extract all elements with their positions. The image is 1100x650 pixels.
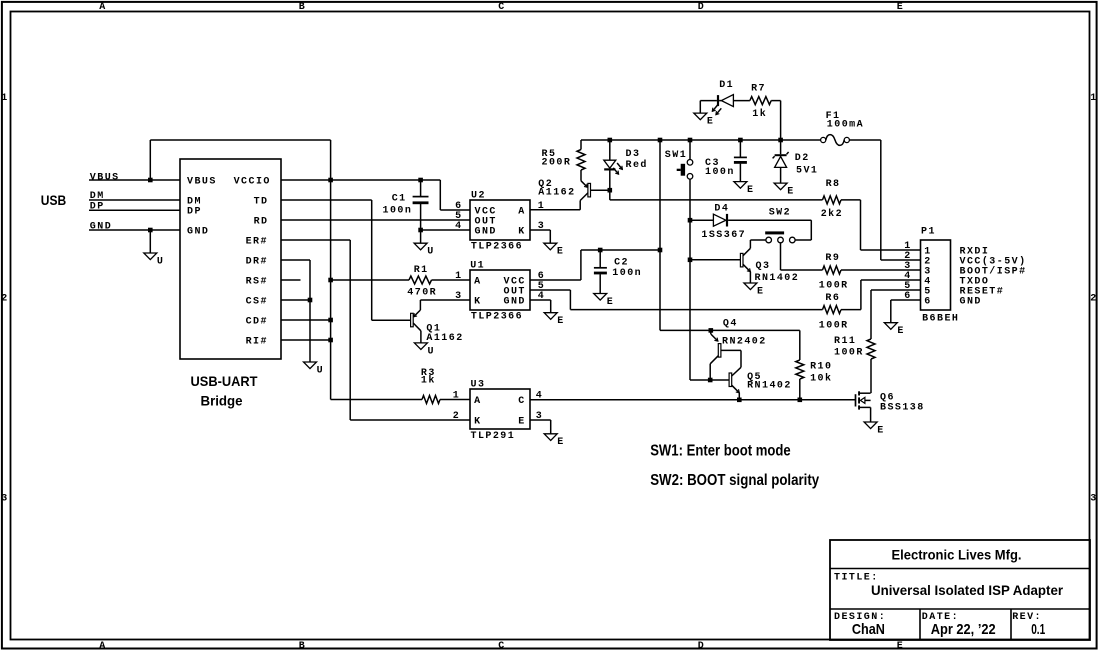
wire R6 to P1 pin4 — [841, 280, 921, 310]
wire U3 pin4 to Q6 gate — [530, 391, 856, 403]
optocoupler U1 TLP2366 — [470, 261, 530, 323]
wire VCC-E vertical bus x660 — [659, 140, 661, 330]
note SW2 — [650, 472, 819, 489]
svg-text:K: K — [518, 226, 525, 237]
svg-text:RN1402: RN1402 — [755, 273, 800, 284]
wire CS# — [281, 299, 310, 301]
wire RI# — [281, 339, 331, 341]
wire R9 to P1 pin3 — [841, 269, 921, 271]
wire GND-U / U2 pin4 — [418, 221, 470, 232]
wire DM — [89, 191, 180, 202]
svg-text:2: 2 — [1090, 294, 1097, 305]
ground U (Q1) — [414, 343, 435, 357]
svg-text:TLP291: TLP291 — [471, 431, 516, 442]
switch SW1 — [665, 150, 693, 179]
wire VCCIO to C1/U2 — [281, 178, 470, 212]
resistor R11 100R — [834, 336, 875, 393]
wire VCC-U vertical bus — [328, 140, 333, 400]
wire TXD-E / Q2 base line — [610, 199, 823, 201]
svg-text:Apr 22, ’22: Apr 22, ’22 — [931, 621, 996, 638]
svg-text:100R: 100R — [819, 320, 849, 331]
svg-text:3: 3 — [536, 411, 543, 422]
svg-text:U1: U1 — [470, 261, 485, 272]
USB-UART bridge IC — [180, 159, 281, 408]
svg-text:E: E — [607, 297, 614, 308]
ground E (C3) — [734, 182, 755, 196]
fuse F1 100mA — [821, 111, 864, 146]
wire D4 to SW2 — [795, 220, 811, 240]
svg-text:RN1402: RN1402 — [747, 381, 792, 392]
ground E (U2 K) — [544, 243, 565, 257]
ground E (Q3) — [744, 283, 765, 297]
svg-text:GND: GND — [90, 222, 112, 233]
svg-text:6: 6 — [924, 296, 931, 307]
svg-text:1k: 1k — [421, 375, 436, 387]
svg-text:USB-UART: USB-UART — [191, 373, 258, 389]
svg-text:ChaN: ChaN — [852, 621, 885, 638]
svg-text:D4: D4 — [714, 203, 729, 214]
resistor R3 1k — [421, 368, 440, 403]
svg-text:CS#: CS# — [246, 296, 268, 307]
svg-text:U3: U3 — [471, 380, 486, 391]
wire R3 to U3 pin1 — [440, 391, 470, 402]
ground E (Q6) — [864, 422, 885, 436]
wire P1 pin5 to R11 — [871, 290, 921, 339]
svg-text:E: E — [757, 286, 764, 297]
svg-text:1: 1 — [538, 201, 545, 212]
wire CD# — [281, 319, 331, 321]
ground E (D1) — [694, 101, 715, 128]
svg-text:U2: U2 — [471, 191, 486, 202]
svg-text:2: 2 — [1, 294, 8, 305]
svg-text:TLP2366: TLP2366 — [471, 241, 523, 252]
ground U (C1/U2) — [414, 230, 435, 258]
LED D3 Red — [604, 140, 648, 200]
svg-text:E: E — [747, 185, 754, 196]
svg-text:Red: Red — [626, 159, 648, 171]
wire DR# — [281, 260, 312, 362]
svg-text:R1: R1 — [414, 265, 429, 276]
svg-text:GND: GND — [187, 226, 209, 237]
svg-text:3: 3 — [538, 221, 545, 232]
svg-text:USB: USB — [41, 193, 66, 208]
ground E (D2) — [774, 183, 795, 197]
wire U1 OUT to R6 — [530, 281, 823, 310]
MOSFET Q6 BSS138 — [856, 391, 925, 422]
wire SW2 common to R9 — [781, 243, 823, 270]
svg-text:E: E — [707, 117, 714, 128]
LED D1 — [700, 80, 734, 115]
wire U2 pin1 to Q2 collector — [530, 201, 580, 212]
wire ER# — [281, 240, 470, 422]
diode D4 1SS367 — [690, 203, 811, 241]
svg-text:R9: R9 — [825, 253, 840, 264]
svg-text:GND: GND — [475, 226, 497, 237]
wire TD — [281, 200, 411, 320]
svg-text:1: 1 — [1090, 93, 1097, 104]
svg-text:RD: RD — [254, 216, 269, 227]
wire U2 pin3 — [530, 221, 550, 243]
ground U (DR#/CS#) — [304, 362, 325, 376]
svg-text:DR#: DR# — [246, 256, 268, 267]
svg-text:E: E — [557, 437, 564, 448]
wire U1 pin3 to Q1 — [420, 291, 470, 310]
svg-text:R11: R11 — [834, 336, 856, 347]
ground E (P1 GND) — [884, 323, 905, 337]
svg-text:CD#: CD# — [246, 316, 268, 327]
svg-text:D3: D3 — [626, 149, 641, 160]
wire P1 pin6 — [891, 300, 921, 323]
svg-text:B6BEH: B6BEH — [922, 314, 959, 325]
svg-text:A1162: A1162 — [538, 188, 575, 199]
capacitor C1 — [383, 180, 429, 230]
wire VCC-E top rail — [581, 138, 821, 143]
wire SW2 left to Q3 collector — [750, 240, 766, 248]
svg-text:1SS367: 1SS367 — [701, 230, 746, 241]
svg-text:3: 3 — [1, 494, 8, 505]
svg-text:SW1: Enter boot mode: SW1: Enter boot mode — [650, 443, 791, 460]
svg-text:470R: 470R — [407, 287, 437, 298]
wire RS# stub — [281, 279, 301, 281]
svg-text:RN2402: RN2402 — [722, 337, 767, 348]
svg-text:U: U — [157, 256, 164, 267]
svg-text:100R: 100R — [819, 280, 849, 291]
svg-text:4: 4 — [538, 291, 545, 302]
svg-text:3: 3 — [1090, 494, 1097, 505]
wire F1 to P1 pin2 — [849, 140, 920, 260]
svg-text:E: E — [897, 641, 904, 650]
USB connector label — [41, 193, 66, 208]
transistor Q1 A1162 — [411, 310, 464, 344]
zener D2 5V1 — [773, 140, 819, 183]
svg-text:1: 1 — [1, 93, 8, 104]
svg-text:RS#: RS# — [246, 276, 268, 287]
ground E (C2) — [594, 294, 615, 308]
svg-text:U: U — [428, 346, 435, 357]
svg-text:B: B — [299, 2, 306, 13]
resistor R8 2k2 — [821, 179, 843, 220]
svg-text:GND: GND — [960, 296, 982, 307]
svg-text:2k2: 2k2 — [821, 208, 843, 220]
svg-text:TD: TD — [254, 196, 269, 207]
svg-text:100R: 100R — [834, 347, 864, 358]
wire U1 VCC to E-supply — [530, 248, 662, 282]
connector P1 B6BEH — [904, 227, 1026, 325]
svg-text:D2: D2 — [795, 153, 810, 164]
wire SW1/D4/Q3 vertical bus x690 — [688, 179, 693, 380]
wire VCC-U to R1 to U1 pin1 — [331, 271, 470, 282]
transistor Q2 A1162 — [538, 179, 610, 210]
svg-text:Electronic Lives Mfg.: Electronic Lives Mfg. — [892, 546, 1022, 562]
svg-text:E: E — [557, 316, 564, 327]
svg-text:A: A — [99, 641, 106, 650]
svg-text:Universal Isolated ISP Adapter: Universal Isolated ISP Adapter — [871, 582, 1064, 598]
note SW1 — [650, 443, 791, 460]
svg-text:GND: GND — [504, 296, 526, 307]
svg-text:C: C — [498, 2, 505, 13]
svg-text:VBUS: VBUS — [187, 176, 217, 187]
svg-text:R7: R7 — [751, 84, 766, 95]
svg-text:E: E — [877, 425, 884, 436]
svg-text:SW2: BOOT signal polarity: SW2: BOOT signal polarity — [650, 472, 819, 489]
wire SW1 top — [689, 140, 691, 160]
wire RD — [281, 211, 470, 222]
svg-text:C1: C1 — [392, 193, 407, 204]
svg-text:2: 2 — [453, 411, 460, 422]
svg-text:R10: R10 — [810, 362, 832, 373]
wire VBUS — [89, 172, 180, 183]
svg-text:B: B — [299, 641, 306, 650]
wire R8 to P1 pin1 — [841, 200, 921, 250]
svg-text:Bridge: Bridge — [201, 392, 243, 408]
svg-text:R8: R8 — [826, 179, 841, 190]
svg-text:0.1: 0.1 — [1031, 621, 1045, 638]
svg-text:BSS138: BSS138 — [880, 403, 925, 414]
svg-text:1: 1 — [455, 271, 462, 282]
svg-text:K: K — [474, 296, 481, 307]
svg-text:SW2: SW2 — [769, 208, 791, 219]
svg-text:A1162: A1162 — [426, 333, 463, 344]
svg-text:E: E — [897, 326, 904, 337]
ground E (U3) — [544, 434, 565, 448]
svg-text:VBUS: VBUS — [90, 172, 120, 183]
svg-text:C: C — [518, 396, 525, 407]
transistor Q4 RN2402 — [710, 319, 767, 381]
wire DP — [89, 201, 180, 212]
resistor R1 470R — [407, 265, 437, 298]
svg-text:C: C — [498, 641, 505, 650]
switch SW2 — [765, 208, 795, 243]
svg-text:Q4: Q4 — [723, 319, 738, 330]
svg-text:4: 4 — [536, 391, 543, 402]
svg-text:4: 4 — [455, 221, 462, 232]
svg-text:D: D — [698, 641, 705, 650]
resistor R5 200R — [542, 140, 586, 181]
wire VCC-E to Q4/R10 — [660, 328, 800, 333]
svg-text:U: U — [317, 365, 324, 376]
svg-text:E: E — [897, 2, 904, 13]
svg-text:200R: 200R — [542, 158, 572, 169]
svg-text:Q3: Q3 — [756, 261, 771, 272]
capacitor C2 100n — [594, 250, 642, 294]
svg-text:10k: 10k — [810, 373, 832, 385]
svg-text:D1: D1 — [719, 80, 734, 91]
svg-text:100n: 100n — [705, 167, 735, 178]
wire U3 pin3 — [530, 411, 551, 434]
svg-text:A: A — [474, 396, 481, 407]
svg-text:100mA: 100mA — [827, 120, 864, 131]
ground E (U1 GND) — [544, 313, 565, 327]
svg-text:SW1: SW1 — [665, 150, 687, 161]
svg-text:E: E — [787, 187, 794, 198]
svg-text:1k: 1k — [752, 108, 767, 120]
transistor Q3 RN1402 — [690, 248, 799, 284]
resistor R9 100R — [819, 253, 849, 291]
wire VCC-U to R3 — [331, 399, 422, 401]
resistor R10 10k — [796, 330, 833, 399]
svg-text:A: A — [99, 2, 106, 13]
svg-text:1: 1 — [453, 391, 460, 402]
svg-text:P1: P1 — [921, 227, 936, 238]
svg-text:R6: R6 — [825, 293, 840, 304]
capacitor C3 100n — [705, 140, 747, 182]
optocoupler U2 TLP2366 — [470, 191, 530, 253]
wire GND — [89, 222, 180, 233]
wire VCCIO loop over bridge — [150, 140, 330, 180]
resistor R7 1k — [733, 84, 780, 140]
svg-text:RI#: RI# — [246, 336, 268, 347]
ground U (USB GND) — [144, 230, 165, 267]
transistor Q5 RN1402 — [690, 367, 792, 400]
svg-text:E: E — [557, 247, 564, 258]
svg-text:E: E — [518, 416, 525, 427]
svg-text:U: U — [427, 247, 434, 258]
svg-text:5V1: 5V1 — [796, 166, 818, 177]
svg-text:A: A — [518, 206, 525, 217]
svg-text:TLP2366: TLP2366 — [471, 311, 523, 322]
svg-text:100n: 100n — [612, 268, 642, 279]
svg-text:ER#: ER# — [246, 236, 268, 247]
svg-text:3: 3 — [455, 291, 462, 302]
optocoupler U3 TLP291 — [470, 380, 530, 443]
wire U1 GND — [530, 291, 551, 313]
svg-text:VCCIO: VCCIO — [234, 176, 271, 187]
svg-text:K: K — [474, 416, 481, 427]
svg-text:D: D — [698, 2, 705, 13]
svg-text:100n: 100n — [383, 206, 413, 217]
resistor R6 100R — [819, 293, 849, 331]
svg-text:DP: DP — [187, 206, 202, 217]
svg-text:A: A — [474, 276, 481, 287]
